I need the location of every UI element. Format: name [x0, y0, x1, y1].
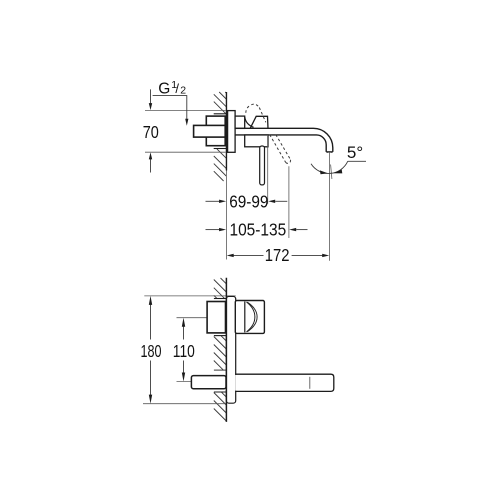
lever handle (down position) [260, 146, 265, 185]
flush sleeve top edge [214, 113, 227, 115]
handle knob block (lower view) [235, 301, 264, 334]
extension line 110 top [177, 317, 207, 319]
mixer body lower section [245, 135, 268, 147]
dashed handle rotated up [246, 104, 266, 140]
svg-text:5°: 5° [347, 143, 363, 162]
cartridge dome arc [245, 117, 254, 127]
extension line from lever tip [267, 135, 269, 204]
svg-text:105-135: 105-135 [230, 220, 287, 240]
svg-text:/: / [175, 81, 179, 96]
dimension 110 [182, 318, 185, 382]
flush sleeve bottom edge [214, 148, 227, 150]
label 70 [143, 122, 159, 142]
spout supply stub (behind wall, lower view) [191, 376, 226, 389]
mixer body upper section [235, 116, 245, 128]
escutcheon plate (upper view) [228, 111, 236, 153]
label 172 [265, 245, 290, 265]
extension line top (70 dim / escutcheon top) [145, 109, 226, 111]
label 69-99 [229, 191, 268, 211]
arc arrowhead right [333, 170, 342, 174]
wall face line (upper view) [225, 92, 227, 260]
arc arrowhead left [320, 170, 328, 174]
spout bar (lower view) [235, 374, 334, 391]
svg-text:69-99: 69-99 [229, 191, 268, 211]
wall hatching band between handle and spout (lower view) [214, 336, 227, 370]
label 110 [173, 341, 195, 361]
wall hatching band below spout (lower view) [214, 392, 227, 421]
swivel arc 5 degrees [311, 161, 348, 173]
spout horizontal rail and bend [235, 128, 333, 152]
label 180 [141, 341, 162, 361]
dimension 70 arrows [149, 89, 152, 172]
rough-in body (behind wall) [206, 116, 225, 146]
extension line from dashed lever tip [288, 166, 290, 238]
aerator at spout tip [327, 151, 331, 154]
extension line 180 top [144, 295, 235, 297]
label G 1/2 [158, 79, 186, 98]
extension line 180 bottom [143, 403, 227, 405]
label 105-135 [230, 220, 287, 240]
sleeve mark above spout [214, 369, 226, 371]
wall hatching lower band (upper view) [214, 149, 226, 181]
svg-text:110: 110 [173, 341, 195, 361]
escutcheon plate (lower view) [226, 296, 235, 403]
dashed lever rotated outward [270, 135, 291, 164]
dimension 180 [149, 296, 152, 404]
svg-text:180: 180 [141, 341, 162, 361]
wall face line (lower view) [225, 278, 227, 422]
sleeve mark below spout [214, 391, 226, 393]
sleeve mark above handle [214, 298, 226, 300]
dimension 172 [227, 254, 330, 257]
wall hatching band above handle (lower view) [214, 278, 227, 298]
svg-text:70: 70 [143, 122, 159, 142]
label 5 degrees [347, 143, 363, 162]
svg-text:172: 172 [265, 245, 290, 265]
dimension 69-99 [206, 200, 288, 203]
svg-text:G: G [158, 81, 170, 98]
extension line from spout tip [329, 153, 331, 261]
sleeve mark below handle [214, 335, 226, 337]
svg-text:2: 2 [180, 84, 186, 96]
wall hatching top band (upper view) [214, 92, 226, 113]
G1/2 leader line [153, 96, 189, 126]
5 degree tilted line [331, 165, 332, 180]
dimension 105-135 [206, 228, 308, 231]
rough-in body (lower view) [207, 302, 225, 333]
extension line 110 bottom [177, 381, 195, 383]
extension line bottom (70 dim / escutcheon bottom) [145, 151, 226, 153]
supply pipe G1/2 connection [194, 125, 226, 137]
handle cap trapezoid [250, 116, 268, 128]
leader line for 5 degrees [348, 160, 366, 162]
